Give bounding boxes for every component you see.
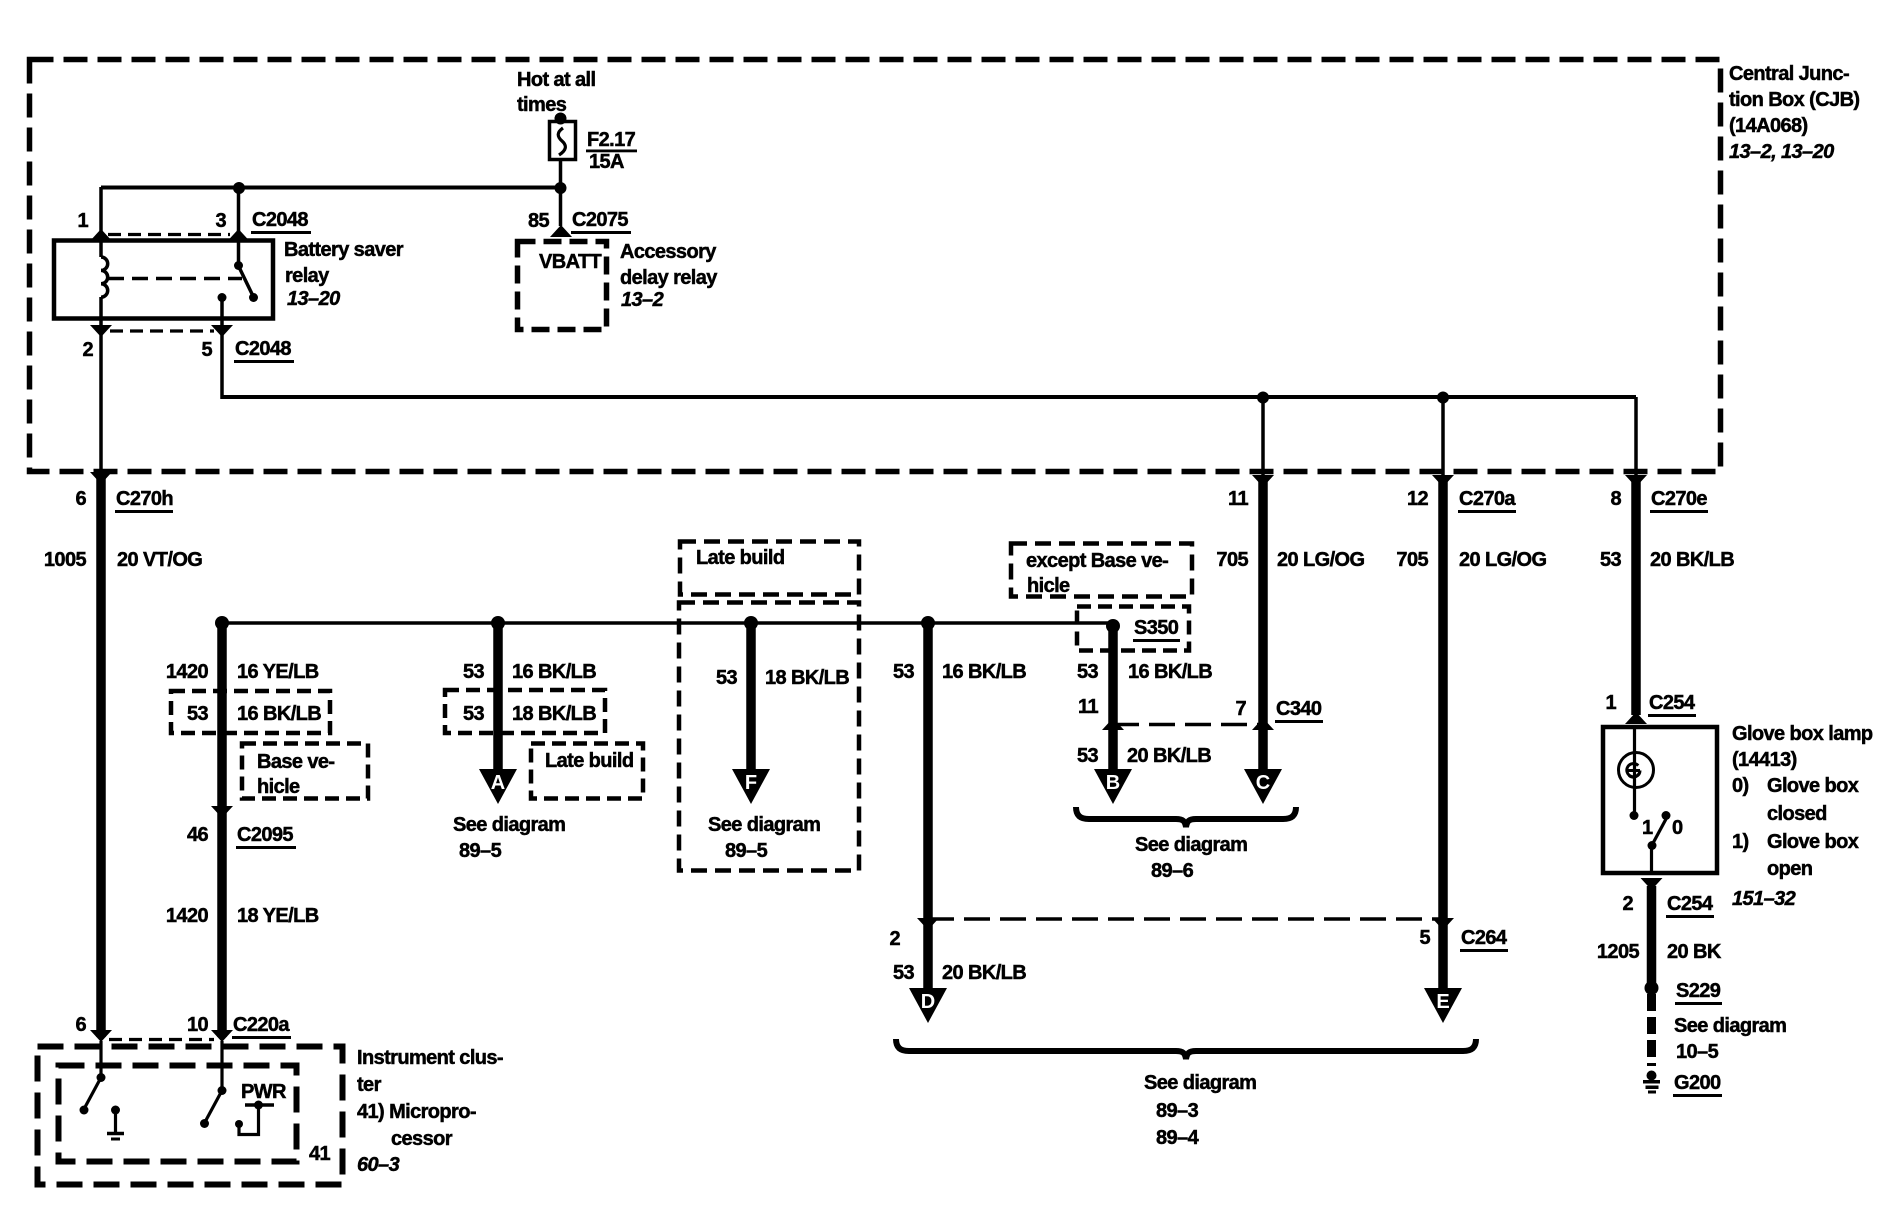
svg-text:85: 85 (528, 210, 550, 232)
svg-text:53: 53 (1077, 661, 1099, 683)
svg-text:2: 2 (82, 339, 93, 361)
svg-text:A: A (491, 772, 505, 794)
svg-text:C2095: C2095 (237, 824, 293, 846)
svg-text:(14A068): (14A068) (1729, 115, 1808, 137)
svg-text:53: 53 (893, 962, 915, 984)
svg-text:0: 0 (1672, 817, 1683, 839)
svg-text:Late build: Late build (696, 547, 784, 569)
svg-text:C270h: C270h (116, 488, 173, 510)
svg-text:20 LG/OG: 20 LG/OG (1459, 549, 1546, 571)
svg-text:20 BK/LB: 20 BK/LB (1650, 549, 1734, 571)
svg-text:15A: 15A (589, 151, 624, 173)
svg-text:times: times (517, 94, 567, 116)
svg-text:delay relay: delay relay (620, 267, 718, 289)
svg-text:16 BK/LB: 16 BK/LB (512, 661, 596, 683)
svg-text:6: 6 (75, 488, 86, 510)
svg-text:705: 705 (1396, 549, 1428, 571)
svg-text:D: D (921, 991, 935, 1013)
svg-text:89–5: 89–5 (725, 840, 768, 862)
svg-text:41) Micropro-: 41) Micropro- (357, 1101, 476, 1123)
svg-text:except Base ve-: except Base ve- (1026, 550, 1168, 572)
svg-text:705: 705 (1216, 549, 1248, 571)
svg-text:20 BK/LB: 20 BK/LB (942, 962, 1026, 984)
svg-text:2: 2 (889, 928, 900, 950)
svg-text:S350: S350 (1134, 617, 1179, 639)
svg-text:89–5: 89–5 (459, 840, 502, 862)
svg-text:151–32: 151–32 (1732, 888, 1796, 910)
svg-text:60–3: 60–3 (357, 1154, 400, 1176)
svg-text:12: 12 (1407, 488, 1429, 510)
svg-text:53: 53 (463, 703, 485, 725)
svg-text:C270e: C270e (1651, 488, 1707, 510)
svg-text:Accessory: Accessory (620, 241, 717, 263)
svg-text:C270a: C270a (1459, 488, 1516, 510)
svg-text:F: F (745, 772, 757, 794)
svg-text:53: 53 (1077, 745, 1099, 767)
svg-text:Instrument clus-: Instrument clus- (357, 1047, 503, 1069)
svg-text:C254: C254 (1667, 893, 1714, 915)
svg-text:2: 2 (1622, 893, 1633, 915)
svg-text:open: open (1767, 858, 1812, 880)
svg-text:7: 7 (1235, 698, 1246, 720)
svg-text:1420: 1420 (166, 905, 209, 927)
svg-text:3: 3 (215, 210, 226, 232)
svg-text:cessor: cessor (391, 1128, 453, 1150)
svg-text:(14413): (14413) (1732, 749, 1797, 771)
svg-text:PWR: PWR (241, 1081, 287, 1103)
svg-text:10–5: 10–5 (1676, 1041, 1719, 1063)
svg-text:11: 11 (1228, 488, 1248, 510)
svg-text:E: E (1436, 991, 1449, 1013)
svg-text:53: 53 (1600, 549, 1622, 571)
svg-text:1: 1 (77, 210, 88, 232)
svg-text:20 BK: 20 BK (1667, 941, 1722, 963)
svg-text:53: 53 (187, 703, 209, 725)
svg-text:tion Box (CJB): tion Box (CJB) (1729, 89, 1859, 111)
svg-text:ter: ter (357, 1074, 382, 1096)
svg-text:20 VT/OG: 20 VT/OG (117, 549, 202, 571)
svg-text:Battery saver: Battery saver (284, 239, 404, 261)
svg-text:closed: closed (1767, 803, 1827, 825)
svg-text:G200: G200 (1674, 1072, 1721, 1094)
svg-text:89–6: 89–6 (1151, 860, 1194, 882)
svg-text:10: 10 (187, 1014, 209, 1036)
svg-text:C2075: C2075 (572, 209, 628, 231)
svg-text:5: 5 (1419, 927, 1430, 949)
svg-text:1005: 1005 (44, 549, 87, 571)
svg-text:F2.17: F2.17 (587, 129, 636, 151)
svg-text:See diagram: See diagram (1144, 1072, 1256, 1094)
svg-text:20 LG/OG: 20 LG/OG (1277, 549, 1364, 571)
svg-text:1): 1) (1732, 831, 1749, 853)
svg-text:13–2: 13–2 (621, 289, 664, 311)
svg-text:53: 53 (463, 661, 485, 683)
svg-text:relay: relay (285, 265, 330, 287)
svg-text:1205: 1205 (1597, 941, 1640, 963)
svg-text:1: 1 (1642, 817, 1653, 839)
svg-text:13–20: 13–20 (287, 288, 340, 310)
svg-text:C2048: C2048 (235, 338, 291, 360)
svg-text:C2048: C2048 (252, 209, 308, 231)
svg-text:See diagram: See diagram (453, 814, 565, 836)
svg-text:C220a: C220a (233, 1014, 290, 1036)
svg-text:0): 0) (1732, 775, 1749, 797)
svg-text:16 BK/LB: 16 BK/LB (237, 703, 321, 725)
svg-text:Glove box lamp: Glove box lamp (1732, 723, 1873, 745)
svg-text:53: 53 (716, 667, 738, 689)
svg-text:Base ve-: Base ve- (257, 751, 334, 773)
svg-text:See diagram: See diagram (1674, 1015, 1786, 1037)
svg-text:C264: C264 (1461, 927, 1508, 949)
svg-text:1420: 1420 (166, 661, 209, 683)
svg-text:53: 53 (893, 661, 915, 683)
svg-text:Glove box: Glove box (1767, 831, 1859, 853)
svg-text:VBATT: VBATT (539, 251, 602, 273)
svg-text:B: B (1106, 772, 1120, 794)
svg-text:13–2, 13–20: 13–2, 13–20 (1729, 141, 1834, 163)
svg-text:89–4: 89–4 (1156, 1127, 1200, 1149)
svg-text:Glove box: Glove box (1767, 775, 1859, 797)
svg-text:16 BK/LB: 16 BK/LB (1128, 661, 1212, 683)
svg-text:Late build: Late build (545, 750, 633, 772)
svg-text:20 BK/LB: 20 BK/LB (1127, 745, 1211, 767)
svg-text:S229: S229 (1676, 980, 1721, 1002)
svg-text:6: 6 (75, 1014, 86, 1036)
svg-text:C254: C254 (1649, 692, 1696, 714)
svg-text:18 BK/LB: 18 BK/LB (765, 667, 849, 689)
svg-text:16 YE/LB: 16 YE/LB (237, 661, 319, 683)
svg-text:8: 8 (1610, 488, 1621, 510)
svg-text:1: 1 (1605, 692, 1616, 714)
svg-text:hicle: hicle (257, 776, 300, 798)
svg-text:41: 41 (309, 1143, 331, 1165)
svg-text:hicle: hicle (1027, 575, 1070, 597)
svg-text:C340: C340 (1276, 698, 1322, 720)
svg-text:18 YE/LB: 18 YE/LB (237, 905, 319, 927)
svg-text:Central Junc-: Central Junc- (1729, 63, 1849, 85)
svg-text:5: 5 (201, 339, 212, 361)
svg-text:18 BK/LB: 18 BK/LB (512, 703, 596, 725)
svg-text:See diagram: See diagram (708, 814, 820, 836)
svg-text:See diagram: See diagram (1135, 834, 1247, 856)
svg-text:46: 46 (187, 824, 209, 846)
svg-text:16 BK/LB: 16 BK/LB (942, 661, 1026, 683)
svg-text:Hot at all: Hot at all (517, 69, 595, 91)
svg-text:89–3: 89–3 (1156, 1100, 1199, 1122)
svg-text:11: 11 (1078, 696, 1098, 718)
svg-text:C: C (1256, 772, 1270, 794)
